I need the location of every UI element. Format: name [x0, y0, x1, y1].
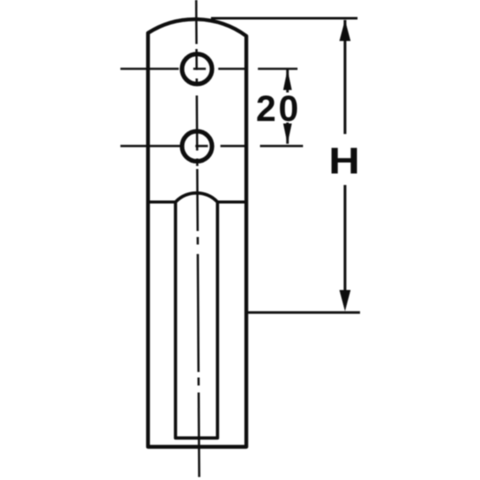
hole 2 horizontal centerline (dash-dot) [120, 145, 303, 147]
arrowhead H top [339, 20, 350, 41]
extension line bottom (for H) [246, 311, 360, 314]
svg-text:H: H [329, 141, 360, 182]
hole 2 (lower) [182, 131, 212, 161]
svg-text:20: 20 [256, 88, 301, 129]
vertical centerline (dash-dot) [196, 0, 199, 477]
hole 1 horizontal centerline (dash-dot) [120, 68, 297, 70]
dimension line H (shaft) [344, 20, 347, 290]
shoulder edge line left [148, 200, 176, 203]
arrowhead H bottom [339, 290, 350, 311]
shoulder edge line right [218, 200, 247, 203]
part outline (bar with rounded top) [148, 19, 246, 447]
slot (channel) with arched top [176, 193, 218, 438]
arrowhead 20 top [283, 70, 292, 91]
extension line top (for H) [211, 17, 358, 20]
hole 1 (upper) [182, 54, 212, 84]
dimension line 20 (shaft) [286, 70, 289, 144]
arrowhead 20 bottom [283, 124, 292, 144]
